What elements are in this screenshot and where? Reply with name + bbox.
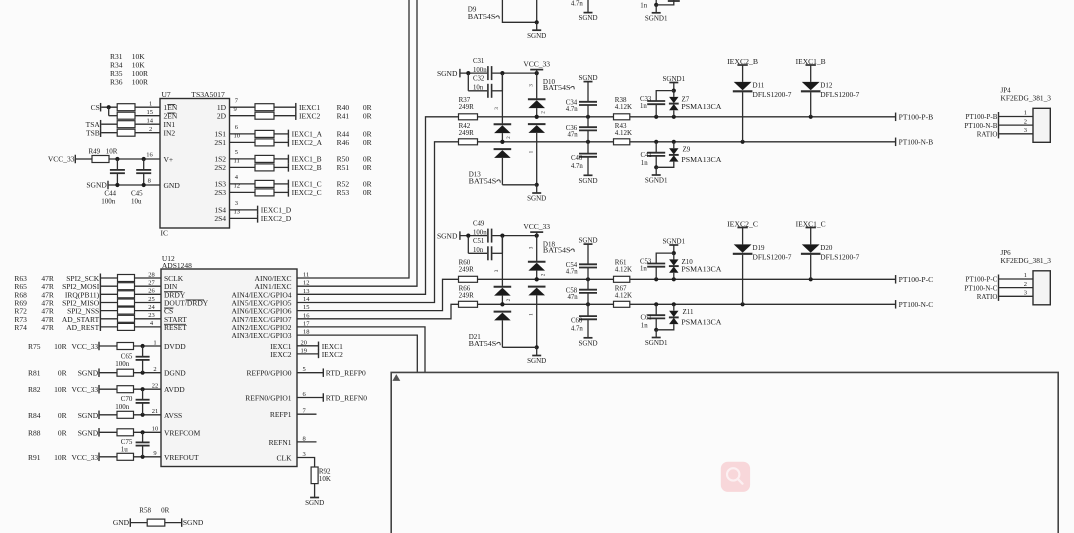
TVS diode Z7 PSMA13CA <box>673 91 675 97</box>
svg-text:V+: V+ <box>164 155 174 164</box>
svg-text:PT100-P-B: PT100-P-B <box>965 113 997 121</box>
svg-text:R81: R81 <box>28 369 41 378</box>
svg-text:10: 10 <box>234 133 241 140</box>
svg-text:JP6: JP6 <box>1001 249 1012 257</box>
capacitor C44 100n <box>116 159 118 169</box>
wire TSB to resistor <box>101 132 117 134</box>
wire GND to R58 <box>131 522 147 524</box>
svg-text:R91: R91 <box>28 453 41 462</box>
svg-text:PT100-P-C: PT100-P-C <box>965 276 997 284</box>
svg-text:4.7n: 4.7n <box>566 268 578 275</box>
svg-text:3: 3 <box>1024 290 1027 297</box>
svg-text:D11: D11 <box>753 82 765 90</box>
svg-text:SGND: SGND <box>578 340 597 348</box>
wire VCC_33 to resistor R91 <box>100 456 117 458</box>
svg-text:0R: 0R <box>58 369 67 378</box>
resistor R50 0R on IEXC1_B <box>255 155 274 162</box>
svg-text:BAT54S: BAT54S <box>469 340 497 348</box>
wire P line R to RC filter <box>478 278 614 280</box>
svg-text:CS: CS <box>91 103 100 112</box>
svg-text:25: 25 <box>148 296 155 303</box>
wire U12 pin 17 AIN2 down to channel D box <box>297 327 425 373</box>
svg-text:47n: 47n <box>568 131 579 138</box>
svg-text:2: 2 <box>1024 281 1027 288</box>
svg-text:4.7n: 4.7n <box>571 326 583 333</box>
capacitor C54 4.7n <box>579 263 597 265</box>
svg-text:R41: R41 <box>337 112 350 121</box>
capacitor C41 1n <box>655 142 657 153</box>
svg-text:VCC_33: VCC_33 <box>48 155 75 164</box>
wire JP4 pin 1 PT100-P-B <box>999 116 1034 118</box>
svg-text:10n: 10n <box>473 85 484 92</box>
svg-text:0R: 0R <box>161 506 170 514</box>
svg-text:11: 11 <box>234 158 240 165</box>
svg-text:AVSS: AVSS <box>164 411 182 420</box>
svg-text:R49: R49 <box>89 147 101 155</box>
resistor R53 0R on IEXC2_C <box>255 189 274 196</box>
wire SGND to caps C31/C32 <box>461 72 488 74</box>
svg-text:R36: R36 <box>110 77 123 86</box>
wire U7 pin 5 row / net IEXC1_B <box>230 158 256 160</box>
svg-text:C31: C31 <box>473 58 484 65</box>
wire U7 pin 12 row / net IEXC2_C <box>230 191 256 193</box>
wire U7 pin 6 row / net IEXC1_A <box>230 133 256 135</box>
svg-text:R82: R82 <box>28 385 41 394</box>
resistor R44 0R on IEXC1_A <box>255 130 274 137</box>
TVS diode Z10 PSMA13CA <box>673 253 675 259</box>
svg-text:VCC_33: VCC_33 <box>523 60 550 69</box>
svg-text:1: 1 <box>529 150 535 153</box>
wire JP4 pin 2 PT100-N-B <box>999 124 1034 126</box>
svg-text:SGND: SGND <box>78 428 99 437</box>
svg-text:C60: C60 <box>571 318 583 325</box>
wire R88 to U12 pin 10 VREFCOM <box>134 431 162 433</box>
svg-text:KF2EDG_381_3: KF2EDG_381_3 <box>1001 94 1052 102</box>
ground SGND1 below C61 <box>655 330 657 338</box>
svg-text:SGND: SGND <box>527 32 546 40</box>
wire bottom rail to SGND <box>502 184 536 186</box>
wire SGND to caps C49/C51 <box>461 235 488 237</box>
wire U7 pin 10 row / net IEXC2_A <box>230 141 256 143</box>
svg-text:AIN3/IEXC/GPIO3: AIN3/IEXC/GPIO3 <box>232 331 292 340</box>
wire R81 to U12 pin 2 DGND <box>134 372 162 374</box>
resistor R52 0R on IEXC1_C <box>255 180 274 187</box>
svg-text:SGND: SGND <box>578 74 597 82</box>
capacitor C34 4.7n <box>579 101 597 103</box>
svg-text:D12: D12 <box>820 82 833 90</box>
net SGND label right of R58 <box>181 518 183 527</box>
ground SGND below D9 rail <box>532 29 541 31</box>
svg-text:10: 10 <box>152 426 159 433</box>
wire R73 to U12 pin 23 <box>135 318 162 320</box>
svg-text:SGND: SGND <box>437 232 458 241</box>
svg-text:D19: D19 <box>753 244 766 252</box>
wire U7 pin 9 row / net IEXC2 <box>230 115 256 117</box>
resistor R36 (IN2) <box>117 129 135 136</box>
svg-text:10n: 10n <box>473 247 484 254</box>
svg-text:PT100-N-C: PT100-N-C <box>964 284 997 292</box>
svg-text:100R: 100R <box>132 77 148 86</box>
capacitor C51 10n <box>487 246 489 260</box>
svg-text:R84: R84 <box>28 411 41 420</box>
svg-text:3: 3 <box>494 107 500 110</box>
svg-text:10u: 10u <box>131 198 142 206</box>
svg-text:PSMA13CA: PSMA13CA <box>681 266 721 274</box>
svg-text:SGND: SGND <box>578 236 597 244</box>
svg-text:C32: C32 <box>473 76 485 83</box>
svg-text:C51: C51 <box>473 238 484 245</box>
svg-text:R75: R75 <box>28 342 41 351</box>
svg-text:AVDD: AVDD <box>164 385 185 394</box>
wire R63 to U12 pin 28 <box>135 277 162 279</box>
resistor R31 (1EN) <box>117 104 135 111</box>
svg-text:PT100-N-C: PT100-N-C <box>899 301 934 309</box>
svg-text:R58: R58 <box>139 506 151 514</box>
ground SGND1 below C41 <box>655 167 657 175</box>
svg-text:3: 3 <box>529 246 535 249</box>
wire P line to terminal <box>630 278 896 280</box>
channel D hierarchical box (cropped) <box>391 372 1058 533</box>
wire bottom rail to SGND <box>502 346 536 348</box>
svg-text:IEXC2: IEXC2 <box>322 350 343 359</box>
wire CS to resistors <box>101 106 117 108</box>
wire R68 to U12 pin 26 <box>135 293 162 295</box>
wire U7 pin 11 row / net IEXC2_B <box>230 166 256 168</box>
op-amp U7 TS3A5017 multiplexer body <box>160 99 230 229</box>
svg-text:REFP1: REFP1 <box>270 410 292 419</box>
wire U7 pin 13 row / net IEXC2_D <box>230 217 258 219</box>
diode D12 DFLS1200-7 <box>810 65 812 82</box>
svg-text:10R: 10R <box>54 453 67 462</box>
svg-text:1n: 1n <box>641 160 648 167</box>
wire SPI2_SCK to resistor R63 <box>101 277 118 279</box>
resistor R81 0R <box>117 369 134 376</box>
capacitor C60 4.7n <box>587 304 589 316</box>
svg-text:10R: 10R <box>54 342 67 351</box>
svg-text:VCC_33: VCC_33 <box>523 222 550 231</box>
wire U12 pin 11 AIN0 up to channel A <box>297 0 409 278</box>
svg-text:C41: C41 <box>641 152 652 159</box>
svg-text:REFN1: REFN1 <box>269 438 292 447</box>
svg-text:4.12K: 4.12K <box>615 103 632 111</box>
capacitor C61 1n <box>655 304 657 315</box>
capacitor C75 1u <box>142 432 144 442</box>
svg-text:IEXC2_D: IEXC2_D <box>261 214 292 223</box>
svg-text:IEXC2: IEXC2 <box>270 350 291 359</box>
wire U7 pin 7 row / net IEXC1 <box>230 106 256 108</box>
svg-text:R53: R53 <box>337 188 350 197</box>
svg-text:0R: 0R <box>363 188 372 197</box>
svg-text:C49: C49 <box>473 221 485 228</box>
svg-text:C61: C61 <box>641 315 652 322</box>
wire R65 to U12 pin 27 <box>135 285 162 287</box>
resistor R51 0R on IEXC2_B <box>255 164 274 171</box>
svg-text:BAT54S: BAT54S <box>543 247 571 255</box>
svg-text:SGND: SGND <box>78 411 99 420</box>
TVS diode Z11 PSMA13CA <box>673 304 675 310</box>
svg-text:D20: D20 <box>820 244 833 252</box>
wire U12 pin 18 AIN3 down to channel D box <box>297 335 417 372</box>
svg-text:R88: R88 <box>28 428 41 437</box>
svg-text:10K: 10K <box>319 475 331 483</box>
svg-text:R74: R74 <box>14 323 27 332</box>
svg-text:SGND: SGND <box>437 69 458 78</box>
svg-text:PT100-P-C: PT100-P-C <box>899 276 934 284</box>
wire SGND to resistor R88 <box>100 431 117 433</box>
svg-text:SGND: SGND <box>527 357 546 365</box>
resistor R84 0R <box>117 411 134 418</box>
svg-text:TS3A5017: TS3A5017 <box>191 90 225 99</box>
svg-text:10R: 10R <box>54 385 67 394</box>
ground SGND1 above Z7 <box>669 82 678 84</box>
wire R84 to U12 pin 21 AVSS <box>134 414 162 416</box>
svg-text:IC: IC <box>161 229 169 238</box>
svg-text:PT100-P-B: PT100-P-B <box>899 114 934 122</box>
resistor R68 47R <box>118 291 135 298</box>
svg-text:3: 3 <box>235 200 238 207</box>
svg-text:3: 3 <box>1024 127 1027 134</box>
svg-text:22: 22 <box>152 383 159 390</box>
svg-text:100n: 100n <box>115 360 130 368</box>
svg-text:DFLS1200-7: DFLS1200-7 <box>753 91 793 99</box>
wire SGND to resistor R81 <box>100 372 117 374</box>
svg-text:GND: GND <box>164 181 181 190</box>
capacitor C32 10n <box>487 84 489 98</box>
svg-text:TSB: TSB <box>86 128 100 137</box>
power VCC_33 port (channel B) <box>530 69 543 71</box>
svg-text:SGND: SGND <box>86 181 107 190</box>
wire JP6 pin 3 RATIO <box>999 295 1034 297</box>
wire R82 to U12 pin 22 AVDD <box>134 388 162 390</box>
svg-text:SGND1: SGND1 <box>663 237 686 245</box>
svg-text:2: 2 <box>153 366 156 373</box>
resistor R35 (IN1) <box>117 121 135 128</box>
magnifier zoom icon watermark <box>721 462 750 492</box>
wire U12 pin 15 AIN6 up to channel C R60 <box>297 279 459 310</box>
wire D9 bottom rail to SGND <box>502 0 536 22</box>
diode D11 DFLS1200-7 <box>742 65 744 82</box>
wire SGND to resistor R84 <box>100 414 117 416</box>
svg-text:4.12K: 4.12K <box>615 292 632 300</box>
wire R69 to U12 pin 25 <box>135 302 162 304</box>
wire R75 to U12 pin 1 DVDD <box>134 345 162 347</box>
svg-text:23: 23 <box>148 312 155 319</box>
svg-text:0R: 0R <box>363 138 372 147</box>
svg-text:SGND: SGND <box>527 194 546 202</box>
svg-text:47R: 47R <box>41 323 54 332</box>
svg-text:100n: 100n <box>473 67 487 74</box>
ground SGND below channel A cap <box>587 0 589 13</box>
svg-text:Z7: Z7 <box>682 95 690 103</box>
svg-text:3: 3 <box>529 84 535 87</box>
capacitor C40 4.7n <box>587 142 589 154</box>
resistor R65 47R <box>118 283 135 290</box>
svg-text:PSMA13CA: PSMA13CA <box>681 318 721 326</box>
junction dots on power pins <box>141 344 145 348</box>
resistor R92 10K <box>311 467 318 484</box>
wire R92 to SGND <box>314 484 316 498</box>
svg-text:SGND: SGND <box>183 518 204 527</box>
svg-text:DFLS1200-7: DFLS1200-7 <box>820 91 860 99</box>
svg-text:0R: 0R <box>58 428 67 437</box>
ground SGND above C54 <box>584 243 593 245</box>
svg-text:14: 14 <box>147 117 154 124</box>
svg-text:2: 2 <box>1024 118 1027 125</box>
svg-text:BAT54S: BAT54S <box>468 13 496 21</box>
capacitor C70 100n <box>142 389 144 399</box>
wire R72 to U12 pin 24 <box>135 310 162 312</box>
wire R58 to SGND <box>165 522 182 524</box>
svg-text:C44: C44 <box>104 190 116 198</box>
resistor R88 0R <box>117 429 134 436</box>
svg-text:C45: C45 <box>131 190 143 198</box>
svg-text:Z9: Z9 <box>683 146 691 154</box>
svg-text:21: 21 <box>152 408 159 415</box>
svg-text:9: 9 <box>234 106 237 113</box>
svg-text:4.7n: 4.7n <box>571 1 583 8</box>
svg-text:BAT54S: BAT54S <box>469 177 497 185</box>
svg-text:PT100-N-B: PT100-N-B <box>899 139 934 147</box>
svg-text:1u: 1u <box>121 446 129 454</box>
power VCC_33 port (channel C) <box>530 231 543 233</box>
svg-text:16: 16 <box>146 152 153 159</box>
svg-text:BAT54S: BAT54S <box>543 84 571 92</box>
svg-text:IEXC2_A: IEXC2_A <box>292 138 323 147</box>
svg-text:12: 12 <box>234 183 241 190</box>
svg-text:RTD_REFP0: RTD_REFP0 <box>326 369 366 378</box>
svg-text:1: 1 <box>153 339 156 346</box>
svg-text:1n: 1n <box>640 266 647 273</box>
svg-text:RTD_REFN0: RTD_REFN0 <box>326 394 367 403</box>
svg-text:1: 1 <box>1024 272 1027 279</box>
svg-text:R46: R46 <box>337 138 350 147</box>
svg-text:4.7n: 4.7n <box>566 106 578 113</box>
net PT100-P-B terminal label <box>895 113 897 122</box>
svg-text:1: 1 <box>149 100 152 107</box>
wire caps to top rail junction <box>492 235 537 237</box>
svg-text:4.7n: 4.7n <box>571 163 583 170</box>
svg-text:SGND1: SGND1 <box>663 75 686 83</box>
resistor R82 10R <box>117 386 134 393</box>
resistor R41 0R on IEXC2 <box>255 112 274 119</box>
resistor R74 47R <box>118 323 135 330</box>
svg-text:VREFOUT: VREFOUT <box>164 453 199 462</box>
capacitor C53 1n <box>656 253 674 263</box>
svg-text:26: 26 <box>148 288 155 295</box>
wire AD_START to resistor R73 <box>101 318 118 320</box>
svg-text:PSMA13CA: PSMA13CA <box>681 156 721 164</box>
svg-text:DFLS1200-7: DFLS1200-7 <box>753 253 793 261</box>
svg-text:13: 13 <box>234 209 241 216</box>
resistor R69 47R <box>118 299 135 306</box>
svg-text:0R: 0R <box>58 411 67 420</box>
wire N line R to RC filter <box>478 303 614 305</box>
svg-text:8: 8 <box>148 178 151 185</box>
svg-text:D9: D9 <box>468 5 477 13</box>
svg-text:R51: R51 <box>337 163 350 172</box>
svg-text:SGND: SGND <box>578 14 597 22</box>
svg-text:IEXC2_B: IEXC2_B <box>292 163 322 172</box>
resistor R46 0R on IEXC2_A <box>255 139 274 146</box>
svg-text:REFN0/GPIO1: REFN0/GPIO1 <box>245 394 292 403</box>
wire JP4 pin 3 RATIO <box>999 133 1034 135</box>
net PT100-P-C terminal label <box>895 275 897 284</box>
box corner marker triangle <box>392 374 400 381</box>
svg-text:100n: 100n <box>101 198 116 206</box>
svg-text:249R: 249R <box>459 265 475 273</box>
resistor R34 (2EN) <box>117 112 135 119</box>
svg-text:28: 28 <box>148 271 155 278</box>
wire JP6 pin 1 PT100-P-C <box>999 278 1034 280</box>
capacitor C33 1n <box>656 91 674 101</box>
wire U12 pin 12 AIN1 up to channel A <box>297 0 417 286</box>
svg-text:1n: 1n <box>641 323 648 330</box>
svg-text:1: 1 <box>1024 110 1027 117</box>
wire SPI2_MISO to resistor R69 <box>101 302 118 304</box>
wire P line R to RC filter <box>478 116 614 118</box>
svg-text:27: 27 <box>148 280 155 287</box>
svg-text:PT100-N-B: PT100-N-B <box>964 122 997 130</box>
wires resistors to U7 left pins 1/15/14/2 <box>135 106 160 108</box>
wire channel A zener to bottom link <box>656 0 674 5</box>
wire JP6 pin 2 PT100-N-C <box>999 287 1034 289</box>
svg-text:SGND1: SGND1 <box>645 14 668 22</box>
svg-text:2S3: 2S3 <box>214 188 226 197</box>
svg-text:U7: U7 <box>162 90 171 99</box>
svg-text:4.12K: 4.12K <box>615 265 632 273</box>
svg-text:2: 2 <box>541 111 547 114</box>
svg-text:2: 2 <box>541 273 547 276</box>
svg-text:SGND: SGND <box>78 369 99 378</box>
svg-text:KF2EDG_381_3: KF2EDG_381_3 <box>1001 257 1052 265</box>
svg-text:100n: 100n <box>473 230 487 237</box>
resistor R75 10R <box>117 343 134 350</box>
net PT100-N-B terminal label <box>895 138 897 147</box>
svg-text:VCC_33: VCC_33 <box>72 385 99 394</box>
svg-text:IEXC2_C: IEXC2_C <box>292 188 322 197</box>
svg-text:2S4: 2S4 <box>214 214 226 223</box>
svg-text:C40: C40 <box>571 155 583 162</box>
wire SGND to GND pin 8 <box>109 184 160 186</box>
TVS diode Z9 PSMA13CA <box>673 142 675 148</box>
wire SPI2_NSS to resistor R72 <box>101 310 118 312</box>
wire U7 pin 3 row / net IEXC1_D <box>230 209 258 211</box>
svg-text:1n: 1n <box>640 103 647 110</box>
svg-text:10R: 10R <box>106 147 118 155</box>
wire N line to terminal <box>630 303 896 305</box>
wire caps to top rail junction <box>492 72 537 74</box>
net label column for SPI signals <box>99 274 101 332</box>
capacitor C36 47n between P and N <box>587 117 589 127</box>
capacitor C49 100n <box>487 229 489 243</box>
svg-text:DFLS1200-7: DFLS1200-7 <box>820 253 860 261</box>
svg-text:VREFCOM: VREFCOM <box>164 428 201 437</box>
svg-text:24: 24 <box>148 304 155 311</box>
svg-text:SGND1: SGND1 <box>645 177 668 185</box>
svg-text:1: 1 <box>529 313 535 316</box>
svg-text:249R: 249R <box>459 103 475 111</box>
ground SGND1 above Z10 <box>669 244 678 246</box>
svg-text:3: 3 <box>494 269 500 272</box>
svg-text:RATIO: RATIO <box>977 130 998 138</box>
ground SGND below C60 <box>584 337 593 339</box>
wire SPI2_MOSI to resistor R65 <box>101 285 118 287</box>
ground SGND below D18 <box>532 355 541 357</box>
wire VCC_33 to resistor R75 <box>100 345 117 347</box>
svg-text:0R: 0R <box>363 163 372 172</box>
resistor R72 47R <box>118 307 135 314</box>
wire U12 pin 14 AIN5 up to channel B R42 <box>297 142 459 303</box>
